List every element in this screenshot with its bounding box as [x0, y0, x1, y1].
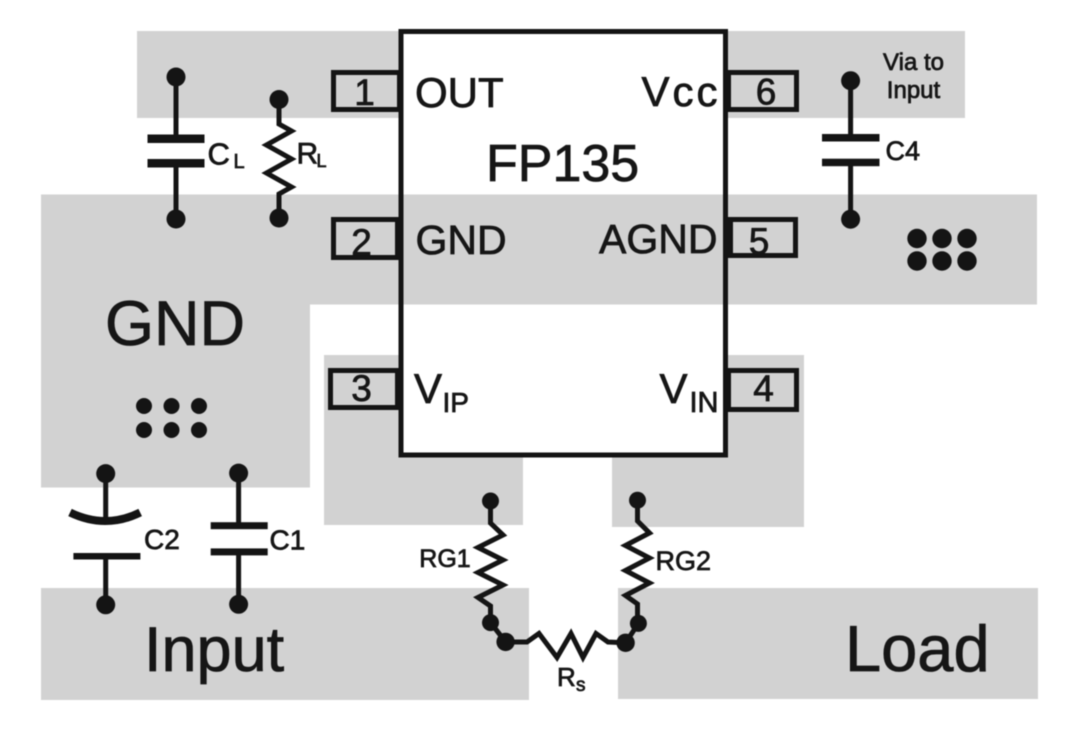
svg-text:1: 1: [354, 72, 375, 113]
svg-text:Input: Input: [144, 615, 285, 685]
svg-text:C1: C1: [270, 525, 306, 556]
svg-text:RG1: RG1: [419, 545, 470, 573]
svg-text:C4: C4: [886, 136, 921, 166]
svg-text:RG2: RG2: [656, 546, 712, 576]
svg-text:Load: Load: [845, 612, 990, 685]
svg-text:C: C: [208, 137, 230, 172]
svg-text:FP135: FP135: [486, 135, 639, 193]
svg-text:GND: GND: [105, 289, 245, 359]
svg-text:IN: IN: [690, 387, 719, 419]
svg-text:C2: C2: [144, 524, 180, 555]
svg-text:Vcc: Vcc: [641, 68, 720, 115]
svg-text:5: 5: [749, 221, 770, 262]
svg-text:AGND: AGND: [599, 216, 717, 262]
svg-text:4: 4: [753, 368, 774, 409]
svg-text:Via to: Via to: [883, 49, 944, 76]
svg-text:Input: Input: [887, 77, 941, 104]
svg-text:L: L: [234, 151, 245, 173]
svg-text:GND: GND: [416, 217, 507, 263]
svg-text:6: 6: [756, 72, 777, 113]
svg-text:V: V: [660, 365, 688, 412]
svg-text:s: s: [576, 675, 586, 696]
svg-text:2: 2: [351, 222, 372, 263]
svg-text:R: R: [557, 662, 576, 692]
svg-text:V: V: [414, 365, 442, 412]
svg-text:L: L: [317, 151, 327, 171]
svg-text:R: R: [297, 138, 319, 171]
svg-text:3: 3: [351, 368, 372, 409]
svg-text:IP: IP: [443, 387, 469, 418]
svg-text:OUT: OUT: [415, 69, 504, 116]
